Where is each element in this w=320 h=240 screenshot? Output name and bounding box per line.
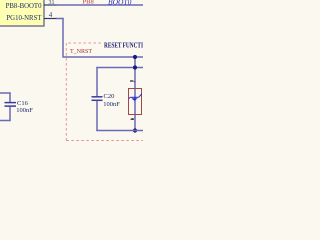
junction dot at (135,67.5) bbox=[133, 65, 137, 69]
junction dot at (135,130.5) bbox=[133, 128, 137, 132]
wire vertical x=135 to diode bbox=[134, 57, 136, 131]
wire BOOT0 net bbox=[56, 4, 143, 6]
svg-text:4: 4 bbox=[49, 11, 53, 19]
wire NRST horizontal from pin bbox=[56, 18, 64, 20]
svg-text:PG10-NRST: PG10-NRST bbox=[6, 15, 42, 22]
svg-text:BOOT0: BOOT0 bbox=[108, 0, 132, 7]
capacitor C20 bbox=[92, 67, 103, 131]
svg-text:100nF: 100nF bbox=[103, 101, 120, 108]
value fragment below diode bbox=[131, 118, 134, 120]
wire C20 top horizontal y=67.5 bbox=[96, 67, 143, 69]
capacitor C16 bbox=[0, 92, 16, 121]
wire C20 bottom horizontal bbox=[96, 130, 143, 132]
pin 4 stub bbox=[44, 18, 57, 20]
pin 31 stub bbox=[44, 4, 57, 6]
zener diode D? symbol bbox=[129, 94, 142, 101]
svg-text:RESET FUNCTION: RESET FUNCTION bbox=[104, 42, 143, 49]
svg-text:C16: C16 bbox=[17, 100, 29, 107]
sheet background bbox=[0, 0, 143, 150]
junction dot at (135,57) bbox=[133, 55, 137, 59]
svg-text:PB8-BOOT0: PB8-BOOT0 bbox=[6, 3, 42, 10]
IC U1 (STM32 MCU) part body bbox=[0, 0, 44, 26]
svg-text:T_NRST: T_NRST bbox=[70, 49, 92, 55]
svg-text:C20: C20 bbox=[104, 93, 115, 100]
TVS diode body (red box) bbox=[129, 89, 142, 115]
designator fragment above diode bbox=[130, 80, 133, 81]
svg-text:31: 31 bbox=[49, 0, 55, 6]
svg-text:PB8: PB8 bbox=[83, 0, 94, 6]
dashed box RESET FUNCTION bbox=[66, 43, 143, 141]
wire NRST horizontal y=57 bbox=[62, 56, 143, 58]
wire NRST vertical down bbox=[62, 18, 64, 57]
svg-text:100nF: 100nF bbox=[16, 107, 33, 114]
